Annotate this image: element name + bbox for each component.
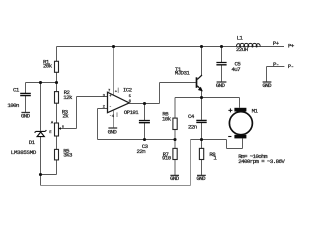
svg-text:GND: GND xyxy=(21,113,31,120)
svg-text:20k: 20k xyxy=(43,63,53,70)
svg-text:GND: GND xyxy=(108,128,118,135)
svg-text:LM385SMD: LM385SMD xyxy=(11,149,37,156)
svg-text:-: - xyxy=(109,114,111,118)
svg-text:100n: 100n xyxy=(7,102,19,109)
svg-text:2400rpm = ~3.86V: 2400rpm = ~3.86V xyxy=(238,158,285,165)
svg-text:4u7: 4u7 xyxy=(231,66,240,73)
svg-text:3k3: 3k3 xyxy=(63,152,73,159)
svg-text:GND: GND xyxy=(262,82,272,89)
svg-text:GND: GND xyxy=(196,175,206,182)
svg-text:OP191: OP191 xyxy=(124,109,140,116)
svg-text:P-: P- xyxy=(273,61,279,68)
svg-text:-: - xyxy=(109,106,111,110)
svg-text:22n: 22n xyxy=(137,148,146,155)
svg-text:GND: GND xyxy=(216,82,226,89)
svg-text:22uH: 22uH xyxy=(236,46,248,53)
svg-text:MJD31: MJD31 xyxy=(175,69,191,76)
svg-text:IC2: IC2 xyxy=(123,87,133,94)
svg-text:22n: 22n xyxy=(188,124,197,131)
svg-text:910: 910 xyxy=(162,155,172,162)
svg-text:GND: GND xyxy=(170,175,180,182)
svg-text:10k: 10k xyxy=(162,116,172,123)
svg-text:P-: P- xyxy=(288,63,294,70)
svg-text:12k: 12k xyxy=(63,94,73,101)
